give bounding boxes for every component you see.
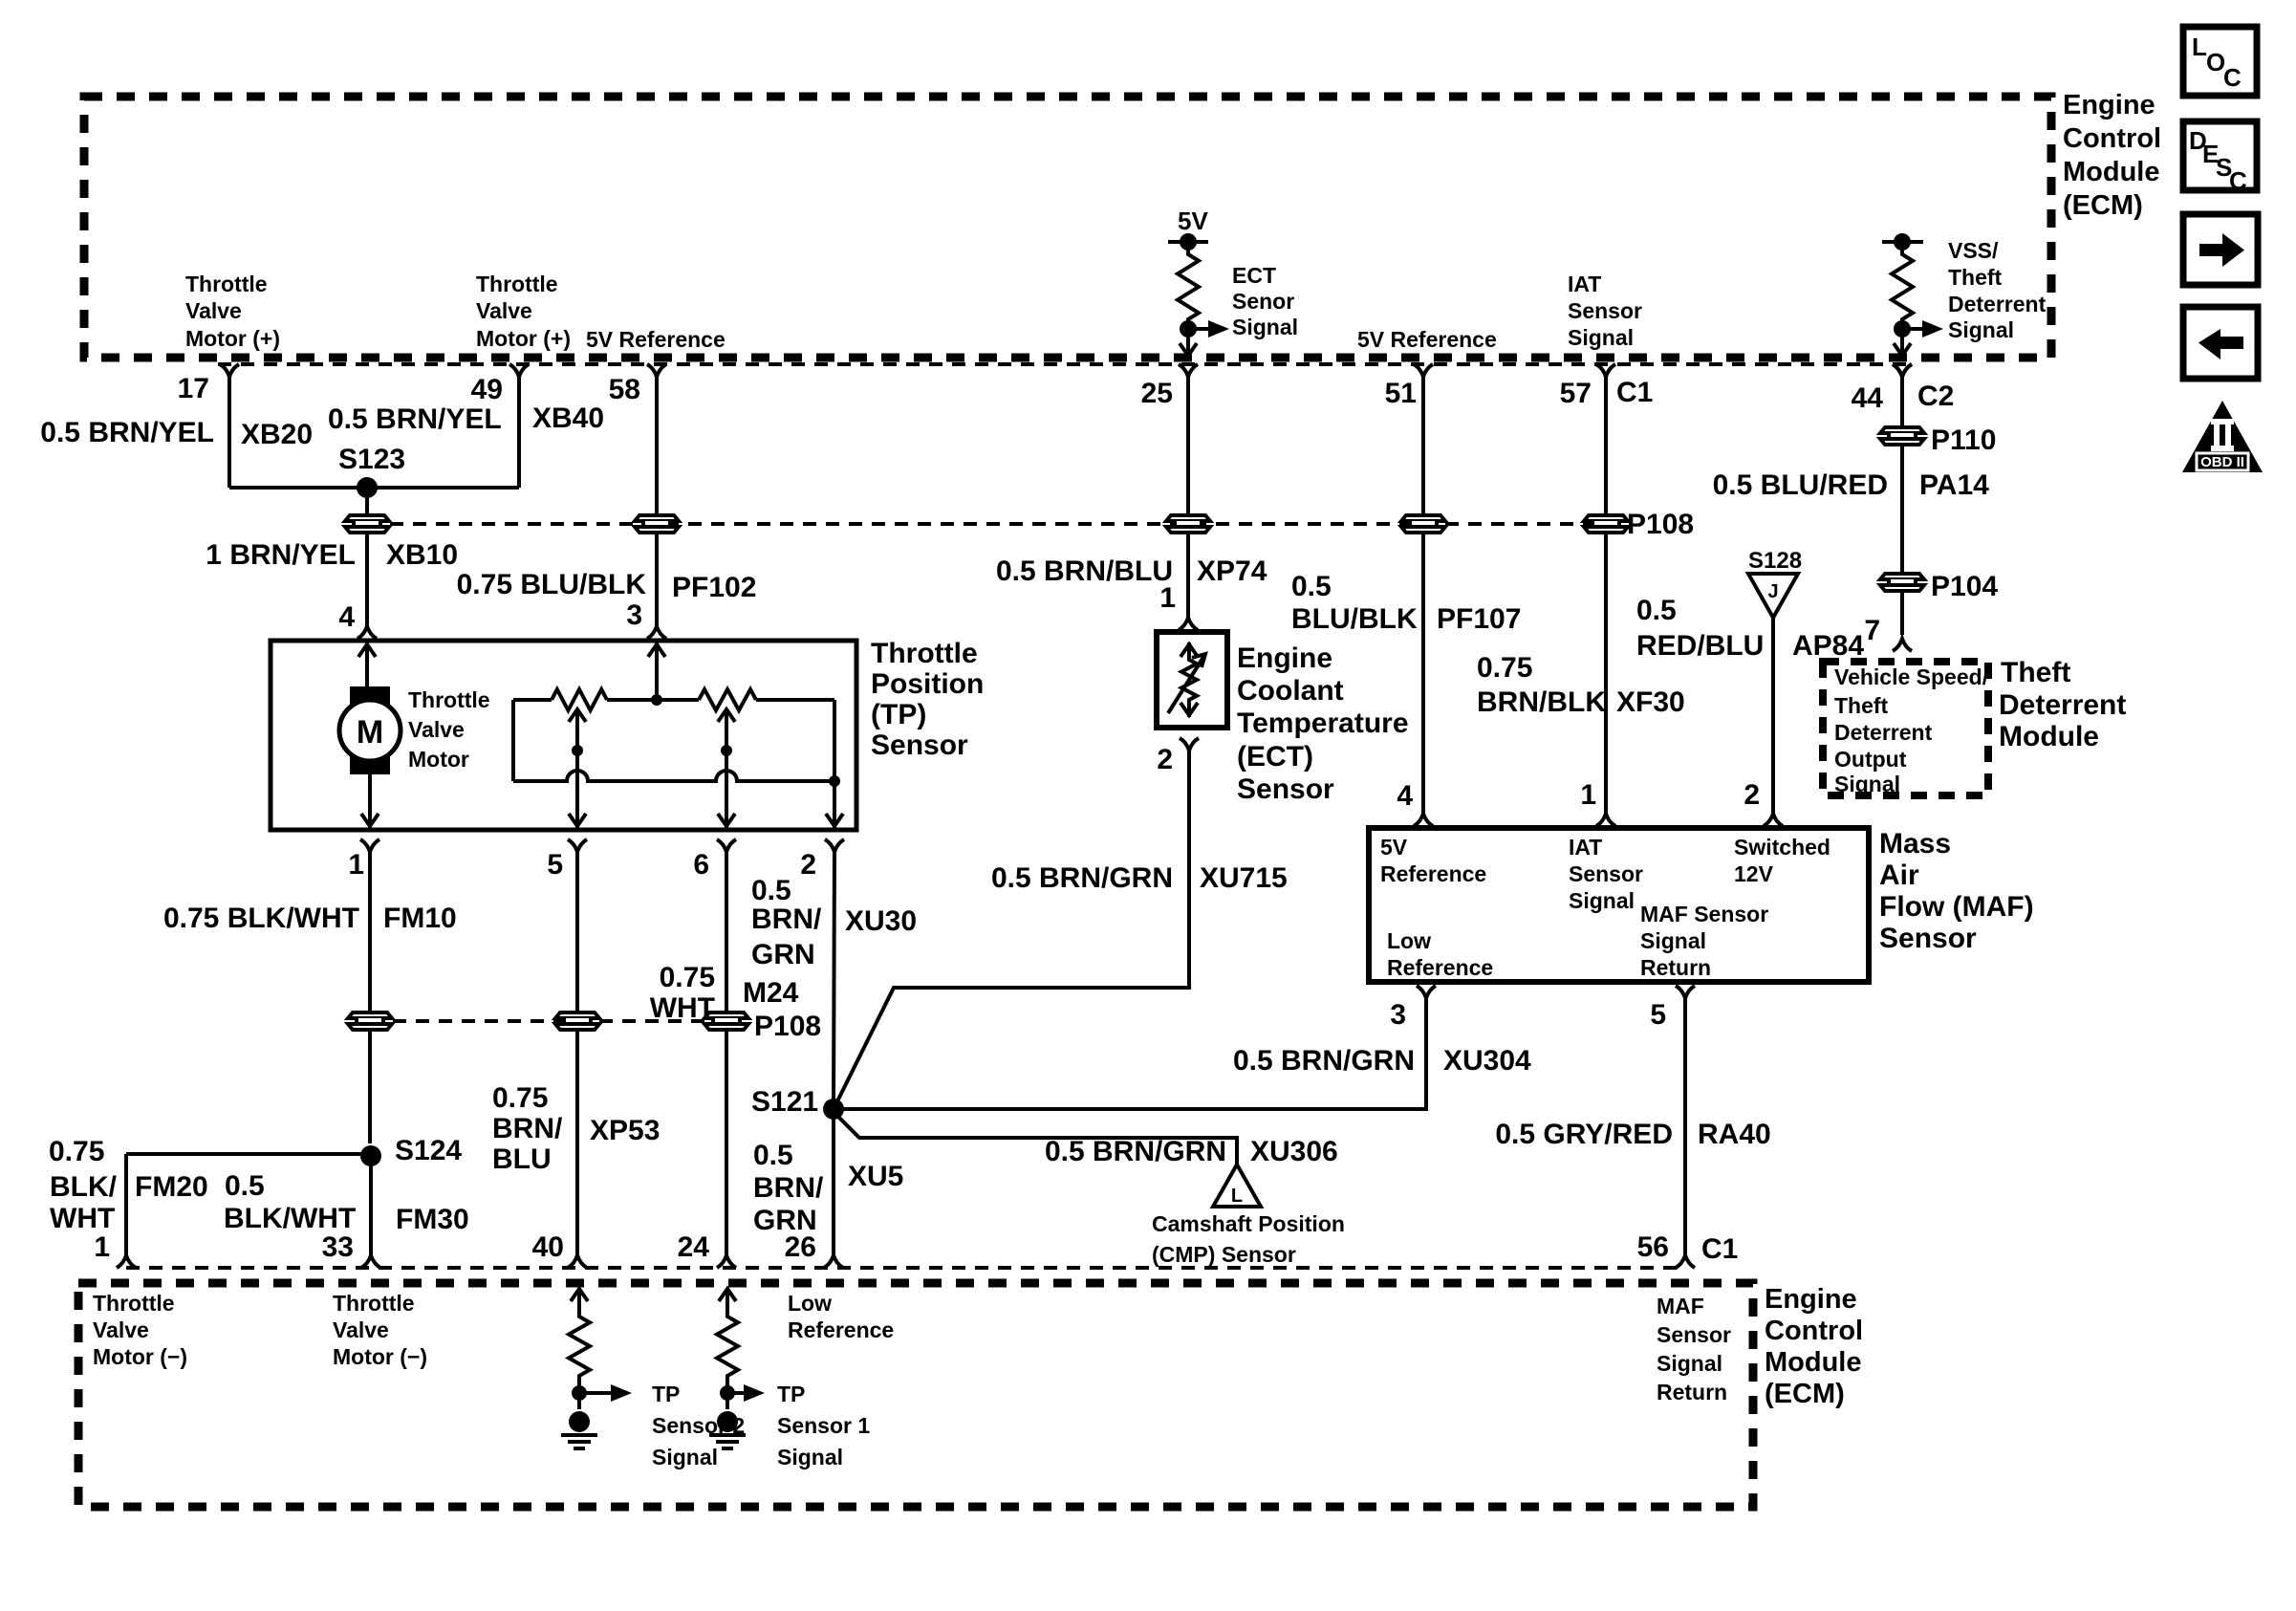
resistor: TP sensor 1 input pull inside ECM bbox=[717, 1289, 738, 1409]
svg-text:(CMP) Sensor: (CMP) Sensor bbox=[1152, 1242, 1296, 1267]
svg-text:1: 1 bbox=[348, 849, 364, 881]
pin label: ECT Senor Signal bbox=[1232, 263, 1298, 339]
svg-text:Flow (MAF): Flow (MAF) bbox=[1879, 891, 2034, 923]
svg-text:Return: Return bbox=[1640, 955, 1711, 980]
svg-text:S123: S123 bbox=[338, 444, 405, 475]
svg-text:Sensor: Sensor bbox=[1657, 1322, 1731, 1347]
svg-text:S128: S128 bbox=[1748, 548, 1802, 574]
svg-text:Mass: Mass bbox=[1879, 828, 1951, 860]
svg-text:0.5 BRN/YEL: 0.5 BRN/YEL bbox=[328, 403, 502, 435]
svg-text:PA14: PA14 bbox=[1919, 469, 1989, 501]
svg-text:Temperature: Temperature bbox=[1237, 708, 1409, 739]
svg-text:XU715: XU715 bbox=[1200, 862, 1288, 894]
svg-text:2: 2 bbox=[1744, 779, 1760, 811]
wire XB10: S123 down to grommet bbox=[365, 488, 369, 516]
svg-text:XB20: XB20 bbox=[241, 419, 313, 450]
label: Engine Control Module (ECM) bottom right bbox=[1765, 1284, 1863, 1409]
svg-text:Sensor: Sensor bbox=[1879, 923, 1977, 954]
svg-text:IAT: IAT bbox=[1569, 835, 1602, 860]
pin 1 of ECT sensor bbox=[1159, 582, 1198, 630]
svg-text:6: 6 bbox=[693, 849, 709, 881]
pin 33 of ECM bottom connector bbox=[322, 1231, 380, 1268]
wire: S123 bus 17-49 bbox=[229, 486, 519, 490]
svg-text:Low: Low bbox=[1387, 928, 1431, 953]
svg-text:C: C bbox=[2223, 63, 2242, 92]
svg-text:4: 4 bbox=[338, 601, 355, 633]
svg-text:56: 56 bbox=[1637, 1231, 1669, 1263]
svg-text:FM30: FM30 bbox=[396, 1204, 469, 1235]
label: Camshaft Position (CMP) Sensor bbox=[1152, 1211, 1345, 1267]
label: Theft Deterrent Module bbox=[1999, 657, 2126, 752]
label: Throttle Valve Motor bbox=[408, 687, 490, 772]
pin 1 of MAF sensor bbox=[1580, 779, 1615, 826]
svg-text:26: 26 bbox=[785, 1231, 816, 1263]
svg-text:Engine: Engine bbox=[2063, 90, 2155, 120]
pin label: TP Sensor 1 Signal bbox=[777, 1382, 870, 1469]
svg-text:24: 24 bbox=[678, 1231, 710, 1263]
svg-text:XP74: XP74 bbox=[1197, 555, 1267, 587]
svg-text:0.5 BRN/GRN: 0.5 BRN/GRN bbox=[1045, 1136, 1226, 1167]
svg-text:5: 5 bbox=[547, 849, 563, 881]
svg-text:Low: Low bbox=[788, 1291, 832, 1316]
wire XB20: pin 17 down bbox=[227, 375, 231, 488]
ground: TP sensor 1 bbox=[709, 1411, 746, 1448]
pin 57 of ECM top connector bbox=[1560, 364, 1615, 409]
svg-text:0.75: 0.75 bbox=[49, 1136, 104, 1167]
svg-text:Signal: Signal bbox=[1569, 888, 1635, 913]
label: Mass Air Flow (MAF) Sensor bbox=[1879, 828, 2034, 954]
svg-text:RED/BLU: RED/BLU bbox=[1636, 630, 1764, 662]
pin label: Low Reference (MAF) bbox=[1387, 928, 1493, 980]
wire: wiper 2 (pin 6), arrow up bbox=[718, 709, 735, 828]
icon: DESC box bbox=[2183, 121, 2257, 195]
svg-text:Motor (−): Motor (−) bbox=[333, 1344, 427, 1369]
svg-text:0.5: 0.5 bbox=[753, 1140, 793, 1171]
wire XF30: pin 57 down to grommet bbox=[1604, 375, 1608, 516]
svg-text:Camshaft Position: Camshaft Position bbox=[1152, 1211, 1345, 1236]
svg-text:FM10: FM10 bbox=[383, 903, 457, 934]
wire: ECT signal arrow right bbox=[1188, 320, 1229, 337]
wire: pot left leg down bbox=[511, 700, 515, 781]
pin label: Switched 12V (MAF) bbox=[1734, 835, 1830, 886]
icon: arrow left box bbox=[2183, 307, 2258, 379]
svg-text:Throttle: Throttle bbox=[408, 687, 490, 712]
resistor: ECT pull-up inside ECM bbox=[1178, 250, 1199, 323]
wire XP53: TP pin 5 down to pin 40 bbox=[575, 850, 579, 1256]
svg-text:Valve: Valve bbox=[476, 298, 532, 323]
pin 24 of ECM bottom connector bbox=[678, 1231, 736, 1268]
pin 26 of ECM bottom connector bbox=[785, 1231, 843, 1268]
label: Engine Control Module (ECM) top right bbox=[2063, 90, 2161, 221]
svg-text:Switched: Switched bbox=[1734, 835, 1830, 860]
svg-text:S121: S121 bbox=[751, 1086, 818, 1118]
svg-text:7: 7 bbox=[1864, 615, 1880, 646]
pin label: MAF Sensor Signal Return pin 56 bbox=[1657, 1294, 1731, 1404]
svg-text:(TP): (TP) bbox=[871, 699, 926, 730]
component box: ECT sensor bbox=[1157, 632, 1227, 728]
label: 0.75 WHT bbox=[650, 962, 715, 1024]
splice node S121 bbox=[823, 1099, 844, 1120]
svg-text:RA40: RA40 bbox=[1698, 1119, 1771, 1150]
svg-text:Throttle: Throttle bbox=[333, 1291, 415, 1316]
svg-text:L: L bbox=[1231, 1186, 1243, 1207]
wire PF107: grommet to MAF pin 4 bbox=[1421, 533, 1425, 817]
svg-text:Deterrent: Deterrent bbox=[1999, 689, 2126, 721]
wire FM30: S124 down to pin 33 bbox=[369, 1154, 373, 1256]
pin 7 of theft deterrent module bbox=[1864, 615, 1912, 651]
pin 4 of MAF sensor bbox=[1397, 780, 1433, 826]
svg-text:MAF: MAF bbox=[1657, 1294, 1704, 1318]
label: 0.75 BLK/ WHT (FM20) bbox=[49, 1136, 118, 1234]
wire FM20: S124 bus left bbox=[126, 1152, 371, 1156]
svg-text:(ECM): (ECM) bbox=[1765, 1379, 1845, 1409]
label: 0.5 BLK/WHT bbox=[224, 1170, 356, 1234]
pin label: VSS/Theft Deterrent Signal bbox=[1948, 238, 2047, 342]
svg-text:Valve: Valve bbox=[408, 717, 465, 742]
svg-text:Control: Control bbox=[2063, 123, 2161, 154]
svg-text:Return: Return bbox=[1657, 1380, 1727, 1404]
label: 0.75 BRN/BLK bbox=[1477, 652, 1606, 718]
svg-text:Theft: Theft bbox=[1834, 693, 1889, 718]
svg-text:Coolant: Coolant bbox=[1237, 675, 1344, 707]
svg-text:Air: Air bbox=[1879, 860, 1919, 891]
svg-text:(ECT): (ECT) bbox=[1237, 741, 1313, 773]
ground: TP sensor 2 bbox=[561, 1411, 597, 1448]
svg-text:Motor (+): Motor (+) bbox=[476, 326, 571, 351]
pin 6 of TP sensor (bottom) bbox=[693, 839, 736, 881]
svg-text:BLU/BLK: BLU/BLK bbox=[1291, 603, 1418, 635]
splice node S123 bbox=[357, 477, 378, 498]
svg-text:Throttle: Throttle bbox=[93, 1291, 175, 1316]
wire XP74: grommet to ECT pin 1 bbox=[1186, 533, 1190, 618]
svg-text:P104: P104 bbox=[1931, 571, 1998, 602]
svg-text:0.5: 0.5 bbox=[1636, 595, 1677, 626]
pin 44 yoke below ECM bbox=[1893, 364, 1912, 377]
svg-text:Signal: Signal bbox=[777, 1445, 843, 1469]
svg-text:XU306: XU306 bbox=[1250, 1136, 1338, 1167]
node: ECT signal junction bbox=[1180, 320, 1197, 337]
svg-text:Signal: Signal bbox=[1640, 928, 1706, 953]
connector symbol: CMP sensor (L) bbox=[1213, 1165, 1261, 1207]
wire XU304: MAF pin 3 to S121 bbox=[834, 998, 1426, 1109]
wire: TP pin 3 to wiper bus, arrow up bbox=[648, 642, 665, 700]
svg-text:BRN/: BRN/ bbox=[492, 1113, 563, 1144]
svg-text:PF102: PF102 bbox=[672, 572, 756, 603]
pin 1 of TP sensor (bottom) bbox=[348, 839, 379, 881]
svg-text:0.75: 0.75 bbox=[1477, 652, 1532, 684]
pin label: Low Reference pin 26 bbox=[788, 1291, 894, 1342]
svg-text:0.5: 0.5 bbox=[1291, 571, 1332, 602]
svg-text:58: 58 bbox=[609, 374, 640, 405]
wire: TP sensor 1 arrow right bbox=[727, 1384, 765, 1402]
pin 56 of ECM bottom connector bbox=[1637, 1231, 1695, 1268]
svg-text:0.5 BRN/GRN: 0.5 BRN/GRN bbox=[1233, 1045, 1415, 1077]
pin 5 of MAF sensor (bottom) bbox=[1650, 986, 1695, 1031]
svg-text:2: 2 bbox=[1157, 744, 1173, 775]
grommet P110 bbox=[1880, 427, 1924, 445]
svg-text:Engine: Engine bbox=[1765, 1284, 1857, 1315]
label: 0.5 BLU/BLK bbox=[1291, 571, 1418, 635]
svg-text:Theft: Theft bbox=[1948, 265, 2003, 290]
wire: ECT signal down to pin 25 bbox=[1180, 329, 1197, 356]
svg-text:Vehicle Speed/: Vehicle Speed/ bbox=[1834, 664, 1989, 689]
svg-text:5V Reference: 5V Reference bbox=[586, 327, 726, 352]
svg-text:40: 40 bbox=[532, 1231, 564, 1263]
svg-text:0.75: 0.75 bbox=[660, 962, 715, 993]
svg-text:1: 1 bbox=[1580, 779, 1596, 811]
svg-text:0.5 BLU/RED: 0.5 BLU/RED bbox=[1713, 469, 1888, 501]
grommet P108 on wire XF30 bbox=[1584, 515, 1628, 533]
svg-text:Signal: Signal bbox=[1568, 325, 1634, 350]
module box: Engine Control Module (ECM), top bbox=[84, 97, 2051, 358]
svg-text:33: 33 bbox=[322, 1231, 354, 1263]
wire XU5: S121 down to pin 26 bbox=[832, 1109, 835, 1256]
svg-text:Sensor: Sensor bbox=[1568, 298, 1642, 323]
pin label: TP Sensor 2 Signal bbox=[652, 1382, 745, 1469]
grommet P108 on wire M24 bbox=[704, 1012, 748, 1030]
svg-text:3: 3 bbox=[1390, 999, 1406, 1031]
pin label: Throttle Valve Motor (+) pin 17 bbox=[185, 272, 280, 351]
pin label: 5V Reference (MAF) bbox=[1380, 835, 1486, 886]
pin 51 of ECM top connector bbox=[1385, 364, 1433, 409]
pin 17 of ECM top connector bbox=[178, 364, 239, 404]
pin label: Throttle Valve Motor (+) pin 49 bbox=[476, 272, 571, 351]
svg-text:J: J bbox=[1767, 581, 1778, 602]
wire XB10: grommet to TP pin 4 bbox=[365, 533, 369, 628]
svg-text:4: 4 bbox=[1397, 780, 1413, 812]
svg-text:Module: Module bbox=[2063, 157, 2160, 187]
svg-text:Senor: Senor bbox=[1232, 289, 1294, 314]
splice symbol S128 (J) bbox=[1748, 574, 1798, 618]
resistor: TP sensor 2 input pull inside ECM bbox=[569, 1289, 590, 1409]
svg-text:Module: Module bbox=[1765, 1347, 1862, 1378]
wire XU30: TP pin 2 down to S121 bbox=[834, 850, 834, 1109]
svg-text:0.5 GRY/RED: 0.5 GRY/RED bbox=[1495, 1119, 1673, 1150]
svg-text:Sensor: Sensor bbox=[871, 729, 968, 761]
pin 1 of ECM bottom connector bbox=[94, 1231, 136, 1268]
pin label: Throttle Valve Motor (-) pin 33 bbox=[333, 1291, 427, 1369]
pin label: IAT Sensor Signal pin 57 bbox=[1568, 272, 1642, 350]
svg-text:WHT: WHT bbox=[650, 992, 715, 1024]
wire: pot bottom bus with hops bbox=[513, 771, 834, 781]
wire AP84: S128 to MAF pin 2 bbox=[1771, 618, 1775, 817]
grommet P104 bbox=[1880, 574, 1924, 591]
module box: Engine Control Module (ECM), bottom bbox=[78, 1283, 1753, 1507]
wire: pin 2 exit, arrow down bbox=[826, 781, 843, 828]
wire PA14: pin 44 to P110 bbox=[1900, 375, 1904, 425]
svg-text:57: 57 bbox=[1560, 378, 1592, 409]
svg-text:AP84: AP84 bbox=[1792, 630, 1864, 662]
svg-text:XP53: XP53 bbox=[590, 1115, 660, 1146]
svg-text:VSS/: VSS/ bbox=[1948, 238, 1999, 263]
thermistor: ECT element bbox=[1168, 642, 1205, 717]
svg-text:XB10: XB10 bbox=[386, 539, 458, 571]
wire PA14: P110 to P104 bbox=[1900, 446, 1904, 572]
power net: 5V at VSS pull-up bbox=[1882, 233, 1923, 250]
pin label: IAT Sensor Signal (MAF) bbox=[1569, 835, 1643, 913]
svg-text:5V: 5V bbox=[1380, 835, 1408, 860]
svg-text:PF107: PF107 bbox=[1437, 603, 1521, 635]
icon: OBD II triangle bbox=[2182, 401, 2263, 472]
label: 0.75 BRN/ BLU bbox=[492, 1082, 563, 1175]
svg-text:TP: TP bbox=[777, 1382, 805, 1406]
svg-text:TP: TP bbox=[652, 1382, 680, 1406]
svg-text:Module: Module bbox=[1999, 721, 2099, 752]
svg-text:Throttle: Throttle bbox=[871, 638, 978, 669]
svg-text:0.75 BLK/WHT: 0.75 BLK/WHT bbox=[163, 903, 359, 934]
label: 0.5 BRN/ GRN (XU5) bbox=[753, 1140, 824, 1236]
svg-text:Signal: Signal bbox=[1232, 315, 1298, 339]
svg-text:BRN/: BRN/ bbox=[751, 903, 822, 935]
svg-text:17: 17 bbox=[178, 373, 209, 404]
wire XU306: S121 to CMP sensor bbox=[834, 1112, 1237, 1165]
svg-text:GRN: GRN bbox=[751, 939, 815, 970]
svg-text:Sensor: Sensor bbox=[1569, 861, 1643, 886]
svg-text:Valve: Valve bbox=[93, 1317, 149, 1342]
wire: TP sensor 2 arrow right bbox=[579, 1384, 632, 1402]
pin label: Throttle Valve Motor (-) pin 1 bbox=[93, 1291, 187, 1369]
grommet on wire PF107 bbox=[1401, 515, 1445, 533]
svg-text:25: 25 bbox=[1141, 378, 1173, 409]
svg-text:0.5: 0.5 bbox=[225, 1170, 265, 1202]
svg-text:Sensor: Sensor bbox=[1237, 773, 1334, 805]
label: 0.5 RED/BLU bbox=[1636, 595, 1764, 662]
power net: 5V at ECT pull-up bbox=[1168, 207, 1208, 250]
svg-text:1 BRN/YEL: 1 BRN/YEL bbox=[206, 539, 356, 571]
svg-text:M: M bbox=[357, 714, 383, 751]
svg-text:1: 1 bbox=[1159, 582, 1176, 614]
wire XB40: pin 49 down bbox=[517, 375, 521, 488]
wire FM10: TP pin 1 down bbox=[368, 850, 372, 1143]
svg-text:OBD II: OBD II bbox=[2200, 454, 2244, 470]
svg-text:C1: C1 bbox=[1701, 1233, 1738, 1265]
svg-text:BLK/: BLK/ bbox=[50, 1171, 118, 1203]
resistor R1: TP potentiometer left bbox=[513, 689, 699, 710]
wire PF102: pin 58 down to grommet bbox=[655, 375, 659, 516]
svg-text:Motor (+): Motor (+) bbox=[185, 326, 280, 351]
svg-text:12V: 12V bbox=[1734, 861, 1774, 886]
svg-text:XF30: XF30 bbox=[1616, 686, 1685, 718]
node: TP sensor 2 signal junction bbox=[572, 1385, 587, 1401]
svg-text:51: 51 bbox=[1385, 378, 1417, 409]
svg-text:0.75: 0.75 bbox=[492, 1082, 548, 1114]
svg-text:0.5: 0.5 bbox=[751, 875, 791, 906]
svg-text:P108: P108 bbox=[1627, 509, 1694, 540]
pin label: Vehicle Speed/Theft Deterrent Output Signal bbox=[1834, 664, 1989, 796]
svg-text:44: 44 bbox=[1852, 382, 1884, 414]
svg-text:Signal: Signal bbox=[652, 1445, 718, 1469]
svg-text:L: L bbox=[2192, 33, 2207, 61]
pin 4 of TP sensor bbox=[338, 601, 377, 639]
svg-text:Motor (−): Motor (−) bbox=[93, 1344, 187, 1369]
svg-text:Engine: Engine bbox=[1237, 642, 1332, 674]
svg-text:BLU: BLU bbox=[492, 1143, 552, 1175]
svg-text:Signal: Signal bbox=[1948, 317, 2014, 342]
svg-text:BRN/: BRN/ bbox=[753, 1172, 824, 1204]
wire: wiper 1 (pin 5), arrow up bbox=[569, 709, 586, 828]
svg-text:5V Reference: 5V Reference bbox=[1357, 327, 1497, 352]
grommet on wire XP74 bbox=[1166, 515, 1210, 533]
wire PF107: pin 51 down to grommet bbox=[1421, 375, 1425, 516]
grommet on wire FM10 bbox=[348, 1012, 392, 1030]
svg-text:0.5 BRN/YEL: 0.5 BRN/YEL bbox=[40, 417, 214, 448]
wire XF30: grommet to MAF pin 1 bbox=[1604, 533, 1608, 817]
wire: motor to TP pin 1, arrow down bbox=[361, 774, 379, 828]
svg-text:0.5 BRN/GRN: 0.5 BRN/GRN bbox=[991, 862, 1173, 894]
pin 3 of TP sensor bbox=[626, 599, 666, 639]
grommet on wire XB10 bbox=[345, 515, 389, 533]
component box: Mass Air Flow (MAF) Sensor bbox=[1369, 828, 1869, 982]
svg-text:BLK/WHT: BLK/WHT bbox=[224, 1203, 356, 1234]
icon: arrow right box bbox=[2183, 214, 2258, 285]
icon: LOC box bbox=[2183, 27, 2257, 96]
pin 5 of TP sensor (bottom) bbox=[547, 839, 587, 881]
svg-text:S124: S124 bbox=[395, 1135, 462, 1166]
svg-text:XU5: XU5 bbox=[848, 1161, 903, 1192]
motor M1: Throttle Valve Motor bbox=[339, 686, 401, 774]
svg-text:Throttle: Throttle bbox=[185, 272, 268, 296]
pin 49 of ECM top connector bbox=[471, 364, 529, 405]
svg-text:ECT: ECT bbox=[1232, 263, 1276, 288]
wire M24: TP pin 6 down to pin 24 bbox=[725, 850, 728, 1256]
svg-text:C1: C1 bbox=[1616, 377, 1653, 408]
node: VSS signal junction bbox=[1894, 320, 1911, 337]
harness pass-through dashed line, row 1 bbox=[367, 522, 1606, 526]
svg-text:Reference: Reference bbox=[1387, 955, 1493, 980]
resistor R2: TP potentiometer right bbox=[699, 689, 834, 710]
svg-text:Valve: Valve bbox=[333, 1317, 389, 1342]
wire XP74: pin 25 down to grommet bbox=[1186, 375, 1190, 516]
svg-text:BRN/BLK: BRN/BLK bbox=[1477, 686, 1606, 718]
pin 44 of ECM top connector bbox=[1852, 364, 1912, 414]
svg-text:3: 3 bbox=[626, 599, 642, 631]
pin 58 of ECM top connector bbox=[609, 364, 666, 405]
pin 40 of ECM bottom connector bbox=[532, 1231, 587, 1268]
svg-text:MAF Sensor: MAF Sensor bbox=[1640, 902, 1768, 926]
pin 2 of MAF sensor bbox=[1744, 779, 1783, 826]
svg-text:0.75 BLU/BLK: 0.75 BLU/BLK bbox=[457, 569, 647, 600]
wire PF102: grommet to TP pin 3 bbox=[655, 533, 659, 628]
grommet on wire PF102 bbox=[635, 515, 679, 533]
svg-text:IAT: IAT bbox=[1568, 272, 1601, 296]
node: pot tap junction (pin 3) bbox=[651, 694, 662, 706]
svg-text:FM20: FM20 bbox=[135, 1171, 208, 1203]
resistor: VSS pull-up inside ECM bbox=[1892, 250, 1913, 323]
svg-text:Valve: Valve bbox=[185, 298, 242, 323]
connector line: ECM C1 bottom bbox=[126, 1266, 1678, 1270]
svg-text:Position: Position bbox=[871, 668, 984, 700]
svg-text:WHT: WHT bbox=[50, 1203, 115, 1234]
connector line: ECM C1/C2 top bbox=[218, 362, 1912, 366]
grommet on wire XP53 bbox=[555, 1012, 599, 1030]
svg-text:(ECM): (ECM) bbox=[2063, 190, 2143, 221]
module box: Theft Deterrent Module bbox=[1823, 662, 1988, 795]
wire: pot right leg down bbox=[833, 700, 836, 781]
svg-text:C2: C2 bbox=[1917, 381, 1954, 412]
svg-text:XU304: XU304 bbox=[1443, 1045, 1531, 1077]
svg-text:Theft: Theft bbox=[2001, 657, 2070, 688]
svg-text:49: 49 bbox=[471, 374, 503, 405]
svg-text:2: 2 bbox=[800, 849, 816, 881]
svg-text:Control: Control bbox=[1765, 1316, 1863, 1346]
svg-text:Signal: Signal bbox=[1657, 1351, 1722, 1376]
svg-text:Sensor 1: Sensor 1 bbox=[777, 1413, 870, 1438]
svg-text:Output: Output bbox=[1834, 747, 1907, 772]
svg-text:XB40: XB40 bbox=[532, 403, 604, 434]
wire FM20: down to pin 1 bbox=[124, 1154, 128, 1256]
svg-text:Deterrent: Deterrent bbox=[1834, 720, 1933, 745]
svg-text:Signal: Signal bbox=[1834, 772, 1900, 796]
